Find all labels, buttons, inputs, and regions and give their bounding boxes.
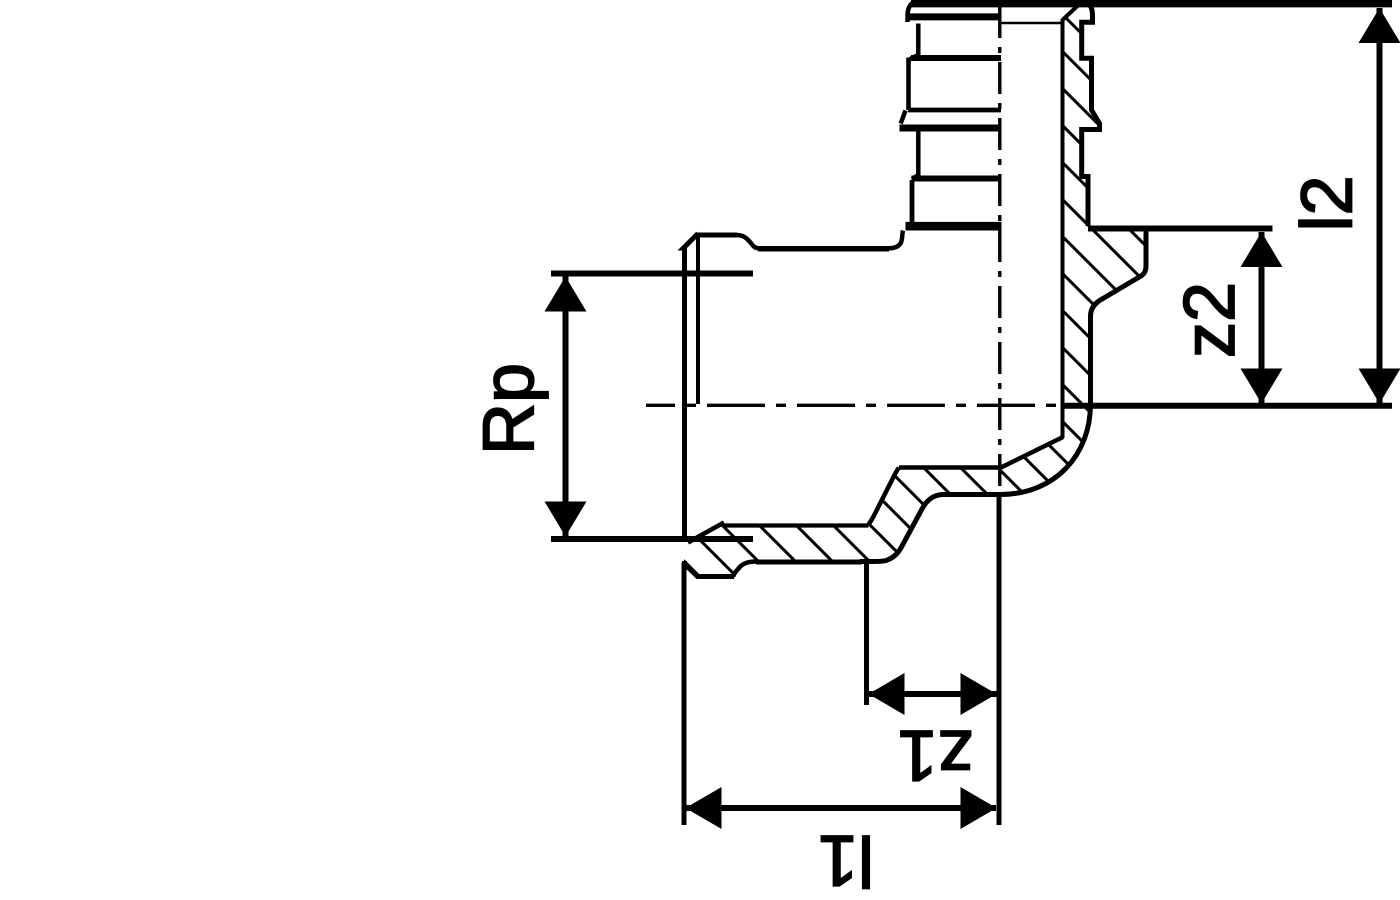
barb edge bar land bottom <box>912 176 1002 182</box>
barb groove lower <box>910 180 915 222</box>
l1 arrow left <box>686 787 722 829</box>
flange outer edge <box>1091 231 1147 406</box>
Rp arrow up <box>545 277 587 312</box>
Rp bottom extension line <box>551 536 753 542</box>
barb crest2 <box>906 58 911 111</box>
z1 l1 right extension <box>997 495 1002 826</box>
l2 dimension line <box>1377 8 1383 404</box>
svg-text:l2: l2 <box>1288 175 1368 231</box>
socket outer bottom line <box>756 560 862 565</box>
z1 left extension <box>864 563 869 705</box>
vertical centerline <box>998 6 1001 491</box>
mouth chamfer <box>688 523 724 543</box>
svg-text:l1: l1 <box>818 820 874 900</box>
z1 arrow left <box>869 673 905 715</box>
barb edge bar rib1 <box>909 13 1001 20</box>
Rp top extension line <box>551 271 753 277</box>
body top line <box>758 246 889 252</box>
inner line y=467.5 <box>899 465 1001 470</box>
bore top chamfer <box>1063 3 1081 20</box>
barb crest1 <box>908 2 916 23</box>
Rp dimension line <box>563 276 569 537</box>
barb right sectioned profile <box>1082 2 1100 227</box>
section hatching <box>650 0 1180 900</box>
socket collar top face <box>696 233 738 238</box>
z1 arrow right <box>961 673 997 715</box>
svg-text:Rp: Rp <box>469 363 549 455</box>
outer line y=494.5 <box>942 492 1002 497</box>
top face / l2 top extension <box>911 0 1392 7</box>
Rp arrow down <box>545 502 587 537</box>
l2 arrow up <box>1359 8 1400 43</box>
outer S-step <box>860 495 942 562</box>
z1 dimension line <box>868 691 997 697</box>
l1 left extension <box>682 563 687 825</box>
thread major line <box>696 236 700 404</box>
collar step down <box>737 235 759 248</box>
elbow outer arc <box>1000 404 1091 495</box>
l1 arrow right <box>961 787 997 829</box>
bore S-step <box>869 468 900 525</box>
socket end face <box>684 234 699 543</box>
barb crest2 step <box>910 56 917 60</box>
svg-text:z1: z1 <box>897 715 973 795</box>
svg-text:z2: z2 <box>1170 282 1250 358</box>
barb edge bar rib2 top <box>911 55 1001 61</box>
fillet to barb skirt <box>889 231 903 249</box>
socket bore line <box>723 523 869 527</box>
outer step down at mouth <box>733 562 756 577</box>
barb land step <box>912 176 918 180</box>
l1 dimension line <box>685 805 996 811</box>
barb flare cone <box>901 111 906 124</box>
flange top face / z2 top extension <box>1088 226 1273 232</box>
z2 arrow down <box>1241 369 1283 404</box>
barb edge bar skirt <box>906 222 1002 231</box>
socket end face lower corner <box>682 561 687 565</box>
socket bottom face <box>698 574 735 579</box>
barb edge bar rib2 bottom <box>908 108 1001 113</box>
bore corner chamfer <box>1001 437 1063 468</box>
l2 arrow down <box>1359 369 1400 404</box>
flange bottom / l2 z2 bottom reference line <box>1062 403 1392 409</box>
barb land <box>916 132 921 176</box>
bore end edge thin line <box>1000 22 1061 25</box>
barb edge bar flare <box>900 125 1002 132</box>
horizontal centerline <box>646 404 1064 407</box>
outer corner chamfer <box>683 563 699 578</box>
barb neck1 <box>916 24 921 56</box>
vertical bore wall <box>1061 19 1065 438</box>
z2 dimension line <box>1259 232 1265 404</box>
z2 arrow up <box>1241 232 1283 267</box>
